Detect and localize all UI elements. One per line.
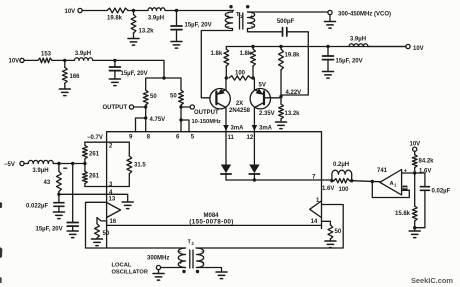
svg-text:+: + [226,14,229,20]
ground below right 15uF [323,72,334,79]
terminal 10V 741 [410,142,421,152]
svg-text:2.35V: 2.35V [259,111,275,117]
resistor 50 pin14 [322,221,342,240]
node top rail A [132,9,135,12]
T2 secondary winding [197,248,204,268]
transistor Q1 2N4258 left [210,78,230,132]
svg-text:12: 12 [247,135,254,141]
wire L to node row2 B [93,59,115,61]
T1 phasing dot secondary [246,5,249,8]
wire to 741 output [352,181,380,182]
ground T2 secondary [216,272,227,279]
svg-text:3.9µH: 3.9µH [75,51,91,57]
svg-text:10V: 10V [410,142,421,148]
svg-text:−: − [251,25,254,31]
svg-text:100: 100 [235,70,246,76]
ground below row2 15uF [109,79,120,86]
label 2X 2N4258 [229,101,251,114]
inductor 3.9uH row3 [24,160,53,174]
svg-text:OUTPUT: OUTPUT [194,110,219,116]
node row3 A [57,162,60,165]
internal op-amp pins 13-16 [107,203,121,218]
pin 2 label [109,144,113,150]
T1 primary polarity marks [226,14,229,31]
node row2 B [113,59,116,62]
pin 7 label [312,175,316,181]
svg-text:10V: 10V [413,46,424,52]
wire pin 2 net -0.7V [85,135,107,142]
svg-text:(155-0078-00): (155-0078-00) [189,219,233,226]
T2 secondary polarity [201,249,205,265]
svg-text:−: − [227,25,230,31]
svg-text:10-150MHz: 10-150MHz [192,119,222,125]
transistor Q2 2N4258 right [250,78,270,132]
wire 10V to R 19.8k [82,10,107,12]
node 4.75V [144,116,165,123]
svg-text:SeekIC.com: SeekIC.com [411,276,453,285]
capacitor 15uF 20V row3 [36,223,79,233]
pin 1 label [316,198,320,204]
svg-text:2X: 2X [236,101,243,107]
terminal 300-450MHz VCO [328,10,391,17]
resistor 153 [38,51,52,62]
svg-text:1.6V: 1.6V [322,186,334,192]
wire pin7 out [322,179,332,181]
inductor 3.9uH top [148,8,165,22]
inductor 3.9uH right [349,36,368,46]
svg-text:10V: 10V [65,9,76,15]
svg-text:16: 16 [110,219,117,225]
wire 50L to pins 9 8 [136,107,146,132]
wire T2 primary to LO terminal [161,267,186,269]
ground below VCO terminal [325,15,336,29]
transformer T1 label [236,12,243,19]
svg-text:19.8k: 19.8k [285,52,301,58]
svg-text:0.02µF: 0.02µF [432,188,451,194]
pin 5 label [191,134,195,140]
svg-text:3.9µH: 3.9µH [32,168,48,174]
terminal OUTPUT right [181,105,221,125]
terminal LOCAL OSCILLATOR [112,255,170,275]
svg-text:300-450MHz (VCO): 300-450MHz (VCO) [338,11,391,17]
svg-text:LOCAL: LOCAL [112,262,132,268]
resistor 84.2k [412,151,434,173]
wire T1 primary bottom to Q1 base [201,29,232,98]
internal resistor 31.5 [107,142,147,186]
svg-text:50: 50 [335,229,342,235]
ground below row3 15uF [67,231,78,238]
svg-text:50: 50 [150,94,157,100]
scan smudge left 2 [0,247,2,258]
node 43 bottom [57,193,60,196]
svg-text:4.22V: 4.22V [286,90,302,96]
T2 primary winding [178,248,185,268]
pin 4 label [109,190,113,196]
scan smudge left 3 [0,277,2,283]
svg-text:OUTPUT: OUTPUT [103,105,128,111]
internal ground pin 4 [107,194,134,208]
svg-text:31.5: 31.5 [134,163,146,169]
svg-text:11: 11 [228,135,235,141]
svg-text:3.9µH: 3.9µH [148,16,164,22]
resistor 50 left [143,78,164,107]
node pin7 L-R right [350,179,353,182]
node row2 A [63,59,66,62]
pin 8 label [147,134,151,140]
svg-text:19.8k: 19.8k [107,16,123,22]
resistor 166 [62,60,80,88]
resistor 50 pin16 [95,218,110,239]
node row3 B [71,162,74,165]
resistor 1.8k left [211,47,229,79]
resistor 100 pin7 [332,179,352,193]
internal pin16 line [107,224,322,226]
svg-text:741: 741 [377,168,388,174]
svg-text:10V: 10V [9,58,20,64]
label 4.22V [286,90,302,96]
741 plus input [402,169,415,175]
svg-text:3.9µH: 3.9µH [350,36,366,42]
wire row2 to 50-ohm pair [115,60,164,78]
inductor 3.9uH row2 [75,51,93,60]
node 1.6V divider [413,169,431,175]
svg-text:0.022µF: 0.022µF [26,203,48,209]
capacitor 500pF [277,19,295,36]
IC bottom bus [86,205,344,249]
internal diode right [249,132,259,180]
label 5V [259,82,266,88]
wire pin 3 net [85,186,107,188]
wire 500pF to base node right [281,32,308,95]
ground below 166 [59,89,70,96]
ground below pin14 50 [325,241,336,248]
wire supply bus [226,46,406,48]
T1 secondary polarity marks [250,14,253,31]
current arrow 3mA right [252,125,273,132]
svg-text:500pF: 500pF [277,19,295,25]
transformer T2 label [188,240,195,247]
pin 13 label [109,197,116,203]
svg-text:3mA: 3mA [259,126,273,132]
svg-text:13.2k: 13.2k [139,29,155,35]
scan smudge left 1 [0,202,2,208]
ground below 15uF top [171,42,182,49]
svg-text:14: 14 [311,219,318,225]
wire 50 top to pin16 [97,218,107,226]
wire pin 4 net [59,193,107,195]
svg-text:84.2k: 84.2k [419,159,435,165]
small minus mark [64,167,67,169]
terminal 10V row2 [9,58,25,64]
node 50-ohm junction [162,76,165,79]
pin 16 label [110,219,117,225]
svg-text:13: 13 [109,197,116,203]
svg-text:0.2µH: 0.2µH [333,162,349,168]
terminal 10V right [406,44,424,52]
capacitor 0.022uF [26,194,64,211]
terminal OUTPUT left [103,105,146,111]
T1 secondary winding [248,12,255,29]
T1 phasing dot primary [229,5,232,8]
resistor 19.8k right [279,47,301,102]
svg-text:15µF, 20V: 15µF, 20V [36,227,63,233]
resistor 100 between emitters [229,70,251,80]
IC M084 box outline [107,132,322,248]
T2 phasing dot secondary [196,270,199,273]
capacitor 15uF 20V top [171,11,212,42]
pin 3 label [109,182,113,188]
svg-text:OSCILLATOR: OSCILLATOR [112,269,148,275]
label M084 [189,213,233,226]
wire L to 10V right [368,46,406,48]
internal diode left [221,132,231,180]
label 2.35V [259,111,275,117]
node 261 junction [83,162,86,165]
node base right [279,95,282,98]
resistor 261 upper [83,142,100,163]
inductor 0.2uH parallel [332,162,352,181]
wire T1 secondary bottom to 500pF [248,29,283,32]
ground below LO terminal [153,270,164,281]
capacitor 15uF 20V row2 [109,60,147,78]
svg-text:261: 261 [89,152,100,158]
resistor 261 lower [83,164,100,187]
svg-text:43: 43 [44,180,51,186]
terminal -5V [4,161,24,168]
svg-text:+: + [250,14,253,20]
capacitor 0.02uF [415,173,451,228]
svg-text:153: 153 [41,51,52,57]
node emitter right [251,76,254,79]
resistor 15.8k [395,173,417,228]
svg-text:4.75V: 4.75V [150,117,166,123]
svg-text:2N4258: 2N4258 [229,108,251,114]
svg-text:5V: 5V [259,82,266,88]
label 1.6V pin7 [322,186,334,192]
741 minus input [402,186,410,191]
resistor 13.2k shunt [131,11,154,39]
svg-text:−0.7V: −0.7V [87,135,103,141]
svg-text:15µF, 20V: 15µF, 20V [185,23,212,29]
resistor 13.2k right [279,101,301,122]
741 feedback loop [372,182,409,198]
node pin7 L-R left [330,179,333,182]
ground below 0.022uF [53,212,64,219]
wire T1 secondary top to VCO terminal [248,11,328,13]
internal buffer pins 1-14 [310,201,322,218]
svg-text:15µF, 20V: 15µF, 20V [336,59,363,65]
resistor 1.8k right [240,47,256,79]
node bus 1.8k-2 [251,45,254,48]
ground below right 13.2k [276,122,287,129]
resistor 43 [44,164,62,195]
svg-text:261: 261 [89,174,100,180]
node 741 output [371,180,374,183]
internal pin7 line [226,179,322,181]
svg-text:100: 100 [339,187,350,193]
wire R19.8k to node [128,10,148,12]
current arrow 3mA left [223,125,244,132]
wire 15uF drop row3 [72,164,74,223]
pin 6 label [176,134,180,140]
terminal 10V top-left [65,8,83,15]
wire Q2 base to divider [264,97,281,99]
capacitor 15uF 20V right [323,47,363,72]
ground below pin16 50 [92,239,103,246]
wire L to node B [165,10,234,12]
T1 primary winding [225,11,232,29]
svg-text:3mA: 3mA [231,126,245,132]
ground below 15.8k [409,228,420,238]
node diode join [253,178,256,181]
op-amp 741 [377,168,402,195]
wire 50R to pins 6 5 [181,107,189,132]
wire L to 261 junction [53,163,85,165]
node below 50 right [179,105,182,108]
svg-text:+: + [201,260,204,266]
node emitter left [225,76,228,79]
watermark SeekIC.com [411,276,453,285]
node below 50 left [144,105,147,108]
T2 core [190,250,193,268]
ground below 13.2k [128,39,139,46]
svg-text:50: 50 [170,94,177,100]
pin 11 label [228,135,235,141]
svg-text:1.8k: 1.8k [240,51,252,57]
node top rail B [175,9,178,12]
svg-text:−: − [179,249,182,255]
resistor 50 right [164,78,183,107]
node pin5 branch [179,118,182,121]
svg-text:13.2k: 13.2k [285,111,301,117]
svg-text:300MHz: 300MHz [147,255,169,261]
node bus 19.8k [279,45,282,48]
T2 primary polarity [179,249,183,266]
svg-text:1.8k: 1.8k [211,51,223,57]
wire R153 to node [52,59,75,61]
pin 14 label [311,219,318,225]
wire T2 secondary to ground [197,268,222,272]
pin 12 label [247,135,254,141]
T1 core [240,13,243,29]
wire pin 13 loop [86,202,107,248]
wire to R153 [24,59,38,61]
node 15.8k bottom [413,226,416,229]
svg-text:166: 166 [70,74,81,80]
svg-text:15.8k: 15.8k [395,211,411,217]
svg-text:−5V: −5V [4,162,15,168]
pin 9 label [129,134,133,140]
svg-text:15µF, 20V: 15µF, 20V [121,71,148,77]
svg-text:−: − [201,249,204,255]
node bus 15uF [326,45,329,48]
svg-text:+: + [179,260,182,266]
T2 phasing dot primary [182,270,185,273]
resistor 19.8k top-left [107,8,128,22]
